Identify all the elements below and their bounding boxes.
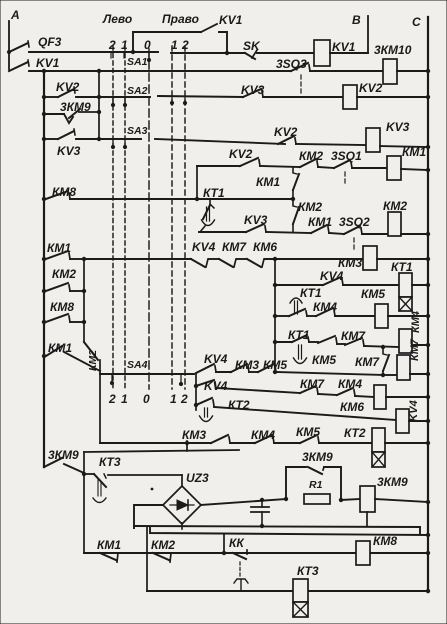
node rung1-KV1 right bbox=[225, 51, 229, 55]
svg-text:КТ1: КТ1 bbox=[300, 286, 322, 300]
wire rung8 bbox=[100, 442, 211, 444]
UZ3 left loop bbox=[134, 505, 163, 528]
svg-text:КМ7: КМ7 bbox=[222, 240, 247, 254]
wire rung6a KT1 coil branch bbox=[273, 283, 277, 287]
svg-text:3КМ9: 3КМ9 bbox=[377, 475, 408, 489]
node rung1-KV1 left bbox=[131, 50, 135, 54]
SA3 position dots bbox=[112, 141, 114, 145]
wire rung6b KM5 coil branch bbox=[273, 314, 277, 318]
svg-text:КМ8: КМ8 bbox=[50, 300, 74, 314]
wire rung10 bbox=[147, 590, 293, 592]
left bus bbox=[43, 71, 45, 467]
svg-text:Лево: Лево bbox=[102, 12, 132, 26]
svg-text:SA2: SA2 bbox=[127, 85, 148, 97]
svg-text:КТ2: КТ2 bbox=[344, 426, 366, 440]
bottom dc rail A bbox=[134, 526, 420, 527]
svg-text:2: 2 bbox=[108, 392, 116, 406]
svg-text:KV3: KV3 bbox=[386, 120, 410, 134]
wire rung4a KM1 coil branch bbox=[197, 165, 240, 167]
wire rung9 bbox=[84, 552, 428, 554]
KV1 bypass branch wire bbox=[133, 32, 201, 52]
svg-text:B: B bbox=[352, 13, 361, 27]
svg-text:A: A bbox=[10, 8, 20, 22]
wire rung1 left bbox=[29, 51, 158, 53]
right bus C bbox=[427, 17, 429, 592]
svg-text:Право: Право bbox=[162, 12, 199, 26]
vertical x84 down bbox=[83, 452, 85, 553]
svg-text:1: 1 bbox=[171, 38, 178, 52]
svg-text:КМ2: КМ2 bbox=[298, 200, 322, 214]
latch box KT2 bbox=[372, 452, 385, 467]
svg-text:КМ1: КМ1 bbox=[47, 241, 71, 255]
svg-text:KV1: KV1 bbox=[332, 40, 356, 54]
svg-text:КМ5: КМ5 bbox=[296, 425, 320, 439]
vertical x100 to rung8 bbox=[99, 374, 101, 443]
wire rung6 bbox=[84, 258, 191, 260]
svg-text:KV3: KV3 bbox=[57, 144, 81, 158]
svg-text:SA4: SA4 bbox=[127, 359, 148, 371]
selector switch dashed line 1-right bbox=[171, 46, 173, 389]
svg-text:3КМ10: 3КМ10 bbox=[374, 43, 412, 57]
vertical x187 tap from rung8 bbox=[186, 441, 188, 451]
svg-text:2: 2 bbox=[108, 38, 116, 52]
svg-text:KV2: KV2 bbox=[359, 81, 383, 95]
svg-text:КМ6: КМ6 bbox=[253, 240, 277, 254]
svg-text:КТ1: КТ1 bbox=[391, 260, 413, 274]
svg-text:КМ1: КМ1 bbox=[97, 538, 121, 552]
upper branch wire bbox=[84, 450, 239, 452]
svg-text:КМ2: КМ2 bbox=[52, 267, 76, 281]
vertical x275 bbox=[274, 259, 276, 372]
wire rung2 bbox=[29, 70, 291, 72]
SA1 ticks bbox=[110, 52, 112, 58]
wire rung5 extension bbox=[197, 198, 293, 200]
latch box KT1 bbox=[399, 297, 412, 311]
svg-text:КМ1: КМ1 bbox=[402, 145, 426, 159]
vertical x84 bbox=[83, 259, 85, 342]
svg-text:KV1: KV1 bbox=[219, 13, 243, 27]
latch box KT3 bbox=[293, 602, 308, 617]
wire rung3 bbox=[76, 96, 150, 98]
coil 3KM9 bottom return bbox=[366, 512, 368, 526]
selector switch dashed line 2-right bbox=[184, 46, 186, 389]
svg-text:KV4: KV4 bbox=[192, 240, 216, 254]
svg-text:КМ5: КМ5 bbox=[361, 287, 385, 301]
svg-text:КМ2: КМ2 bbox=[383, 199, 407, 213]
svg-text:КМ3: КМ3 bbox=[182, 428, 206, 442]
svg-text:R1: R1 bbox=[309, 479, 323, 491]
selector switch dashed line 2-left bbox=[112, 46, 114, 390]
svg-text:КМ3: КМ3 bbox=[338, 256, 362, 270]
capacitor C bbox=[261, 500, 263, 507]
svg-text:KV1: KV1 bbox=[36, 56, 60, 70]
svg-text:1: 1 bbox=[121, 38, 128, 52]
svg-text:3SQ2: 3SQ2 bbox=[339, 215, 370, 229]
node N1 bbox=[82, 472, 86, 476]
svg-text:KV2: KV2 bbox=[229, 147, 253, 161]
UZ3 bottom vertex stub bbox=[181, 523, 183, 529]
vertical link x99 bbox=[98, 71, 100, 139]
svg-text:0: 0 bbox=[143, 392, 150, 406]
wire to UZ3 bbox=[108, 474, 182, 476]
svg-text:КК: КК bbox=[229, 536, 245, 550]
svg-text:КТ1: КТ1 bbox=[203, 186, 225, 200]
svg-text:QF3: QF3 bbox=[38, 35, 62, 49]
wire rung1 right of gap bbox=[171, 52, 245, 54]
mid dc rail bbox=[201, 499, 286, 505]
SA2 position dots bbox=[112, 97, 114, 103]
selector switch dashed line 0 bbox=[148, 49, 150, 389]
vertical x147 bbox=[146, 527, 148, 591]
svg-text:КМ7: КМ7 bbox=[355, 355, 380, 369]
svg-text:КМ5: КМ5 bbox=[312, 353, 336, 367]
svg-text:0: 0 bbox=[144, 38, 151, 52]
svg-text:2: 2 bbox=[181, 38, 189, 52]
svg-text:SA3: SA3 bbox=[127, 125, 148, 137]
SA1 position dot bbox=[148, 52, 150, 58]
svg-text:KV4: KV4 bbox=[204, 352, 228, 366]
wire rung6c KM4 coil branch bbox=[273, 340, 277, 344]
selector switch dashed line 1-left bbox=[124, 46, 126, 390]
node rung5 branch bbox=[195, 197, 199, 201]
svg-text:SK: SK bbox=[243, 39, 261, 53]
svg-text:КМ8: КМ8 bbox=[373, 534, 397, 548]
vertical x196 bbox=[195, 374, 197, 410]
vertical x197 rung4a feed bbox=[196, 166, 198, 199]
vertical x224 bbox=[223, 534, 225, 553]
bottom dc rail B bbox=[150, 527, 428, 535]
svg-text:2: 2 bbox=[180, 392, 188, 406]
SA4 position dots bbox=[111, 374, 113, 381]
svg-text:3SQ3: 3SQ3 bbox=[276, 57, 307, 71]
svg-text:КМ2: КМ2 bbox=[151, 538, 175, 552]
wire rung4 bbox=[99, 138, 141, 140]
svg-text:UZ3: UZ3 bbox=[186, 471, 209, 485]
svg-text:SA1: SA1 bbox=[127, 56, 148, 68]
svg-text:КТ3: КТ3 bbox=[99, 455, 121, 469]
svg-text:C: C bbox=[412, 15, 421, 29]
svg-text:1: 1 bbox=[170, 392, 177, 406]
svg-text:КМ7: КМ7 bbox=[300, 377, 325, 391]
svg-text:КМ1: КМ1 bbox=[256, 175, 280, 189]
svg-text:3КМ9: 3КМ9 bbox=[48, 448, 79, 462]
wire rung5a KM2 coil branch bbox=[199, 231, 246, 233]
svg-text:КМ6: КМ6 bbox=[340, 400, 364, 414]
svg-text:КТ3: КТ3 bbox=[297, 564, 319, 578]
wire rung6d KM7 coil branch bbox=[275, 372, 383, 375]
svg-text:1: 1 bbox=[121, 392, 128, 406]
svg-text:3КМ9: 3КМ9 bbox=[302, 450, 333, 464]
